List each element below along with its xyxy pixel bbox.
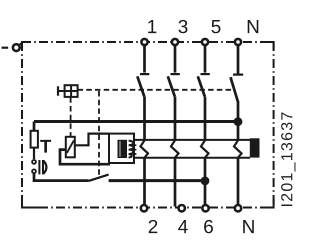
auxiliary contact blade (89, 175, 109, 181)
wire button to aux contact (34, 174, 89, 181)
terminal circle 1 top (141, 39, 147, 45)
contact fixed tick pole 2 (171, 73, 180, 75)
terminal circle 4 bottom (179, 205, 185, 211)
label terminal N top (248, 20, 259, 33)
wire pole 3 lower (204, 158, 207, 205)
contact blade pole 3 (198, 76, 205, 96)
label T (40, 140, 51, 153)
enclosure border dash-dot bottom (22, 207, 274, 209)
test button contact terminal upper (32, 160, 36, 164)
label terminal 1 (148, 20, 156, 33)
wire pole N lower (237, 158, 240, 205)
label drawing number I201_13637 (281, 113, 295, 206)
test button contact cap arc (44, 161, 47, 174)
enclosure corner elbow top-right (269, 42, 274, 50)
varistor diagonal (67, 141, 74, 154)
terminal circle N top (235, 39, 241, 45)
enclosure border dash-dot left (21, 42, 23, 208)
auxiliary contact dashed link vertical (98, 91, 100, 177)
wire left terminal to corner (20, 42, 23, 45)
wire pole 1 top stub (143, 46, 146, 73)
wire pole N middle (237, 101, 240, 140)
label terminal 4 (178, 220, 188, 233)
wire pole 3 middle (204, 97, 207, 141)
terminal left circle (13, 44, 20, 51)
label terminal 3 (178, 20, 187, 33)
label terminal N bottom (243, 220, 254, 233)
test button actuator bar (57, 86, 59, 95)
junction dot N pole (234, 117, 243, 126)
CT winding jag pole 1 (141, 140, 149, 157)
test button contact terminal lower (32, 169, 36, 173)
terminal circle 6 bottom (202, 205, 208, 211)
contact blade pole N (231, 77, 239, 102)
wire pole 1 middle (143, 97, 146, 141)
wire aux contact to pole 3 (109, 179, 205, 182)
mechanism coupling dashed link horizontal (78, 89, 236, 91)
contact fixed tick pole 1 (140, 73, 149, 75)
label terminal 2 (149, 220, 158, 233)
wire pole 3 top stub (204, 46, 207, 73)
test button symbol square (65, 85, 78, 97)
terminal circle 5 top (202, 39, 208, 45)
junction dot pole 3 (201, 177, 210, 186)
test button symbol cross (65, 85, 78, 97)
CT band bottom line (134, 157, 250, 159)
terminal circle N bottom (235, 205, 241, 211)
wire pole 2 top stub (174, 46, 177, 73)
CT winding jag pole 2 (171, 140, 179, 157)
trip solenoid housing (109, 134, 134, 163)
wire varistor left branch (60, 150, 110, 165)
CT band end cap (250, 138, 260, 157)
enclosure corner elbow bottom-left (22, 198, 42, 208)
contact blade pole 1 (137, 76, 144, 96)
enclosure corner elbow bottom-right (267, 199, 274, 208)
label terminal 5 (211, 20, 220, 33)
CT winding jag pole N (234, 140, 242, 157)
trip solenoid magnet block (118, 140, 128, 158)
CT band top line (134, 139, 250, 141)
trip solenoid coil ticks (133, 145, 137, 154)
label terminal 6 (204, 220, 213, 233)
wire pole 2 middle (174, 97, 177, 141)
enclosure border dash-dot top (22, 41, 274, 43)
enclosure corner elbow top-left (22, 42, 31, 51)
resistor R test (31, 131, 38, 148)
wire pole 1 lower (143, 158, 146, 205)
wire varistor right branch step (75, 134, 109, 146)
wire resistor to button (33, 148, 35, 160)
left lead dash (2, 47, 9, 49)
contact blade pole 2 (168, 76, 175, 96)
contact fixed tick pole N (233, 73, 243, 75)
wire N bus horizontal (34, 120, 238, 123)
wire resistor branch vertical (33, 122, 36, 131)
test button actuator lead (58, 90, 65, 92)
terminal circle 2 bottom (141, 205, 147, 211)
trip solenoid coil (129, 141, 134, 158)
terminal circle 3 top (172, 39, 178, 45)
wire pole N top stub (237, 46, 240, 74)
varistor (66, 137, 75, 158)
trip solenoid magnet gap (119, 141, 121, 157)
CT winding jag pole 3 (201, 140, 209, 157)
test button contact bridge bars (39, 160, 43, 174)
contact fixed tick pole 3 (201, 73, 210, 75)
enclosure border dash-dot right (273, 42, 275, 208)
wire pole 2 lower (174, 158, 177, 207)
test button dashed link vertical (70, 97, 72, 136)
